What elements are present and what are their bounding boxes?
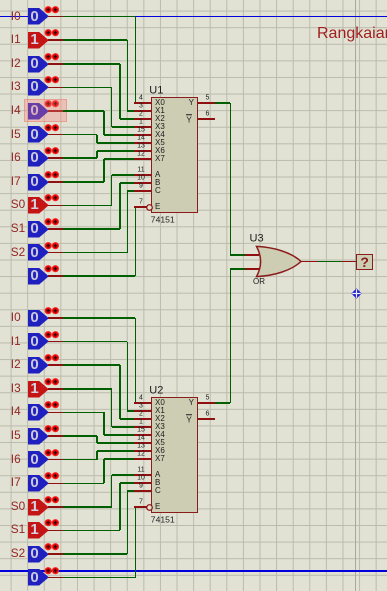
U2 pin name X1 bbox=[155, 407, 165, 415]
stub of I4 group 1 bbox=[48, 110, 64, 112]
U1 pin name X0 bbox=[155, 99, 165, 107]
U2 pin 12 (X7) stub bbox=[134, 458, 151, 460]
stub of I2 group 1 bbox=[48, 63, 64, 65]
stub of S0 group 2 bbox=[48, 506, 64, 508]
U2 pin 7 (E) stub bbox=[134, 506, 146, 508]
U2 pin number 12 bbox=[101, 451, 181, 458]
selection highlight over I4 bbox=[24, 99, 67, 122]
U1 pin number 10 bbox=[101, 175, 181, 182]
U2 pin name X0 bbox=[155, 399, 165, 407]
label I7 (group 1) bbox=[11, 176, 21, 188]
stub of I0 group 1 bbox=[48, 16, 64, 18]
stub of I3 group 1 bbox=[48, 87, 64, 89]
value digit 0 of S2 group 1 bbox=[28, 245, 41, 260]
wire I2 g2 horizontal from input bbox=[63, 364, 120, 366]
label I5 (group 2) bbox=[11, 430, 21, 442]
U2 pin number 4 bbox=[101, 395, 181, 402]
wire S2 g1 vertical bbox=[127, 191, 129, 253]
toggle buttons of I1 group 2 bbox=[44, 331, 60, 339]
wire I4 g1 horizontal to pin bbox=[104, 134, 136, 136]
wire I5 g1 vertical bbox=[96, 135, 98, 144]
74151 chip U2 body bbox=[151, 397, 198, 514]
U1 pin 7 inversion bubble bbox=[146, 204, 154, 212]
U1 pin 15 (X4) stub bbox=[134, 134, 151, 136]
wire I5 g1 horizontal to pin bbox=[97, 142, 136, 144]
value digit 0 of S2 group 2 bbox=[28, 546, 41, 561]
toggle buttons of I2 group 1 bbox=[44, 53, 60, 61]
toggle buttons of I2 group 2 bbox=[44, 354, 60, 362]
U1 pin name Y bbox=[186, 99, 194, 107]
U2 pin 3 (X1) stub bbox=[134, 410, 151, 412]
U2 pin 9 (C) stub bbox=[134, 490, 151, 492]
stub of I7 group 2 bbox=[48, 483, 64, 485]
logicstate input I2 group 1 value 0 bbox=[28, 56, 49, 73]
logicstate input S1 group 1 value 0 bbox=[28, 221, 49, 238]
toggle buttons of I6 group 1 bbox=[44, 147, 60, 155]
wire I7 g2 horizontal to pin bbox=[104, 458, 136, 460]
toggle buttons of I5 group 1 bbox=[44, 124, 60, 132]
wire I0 g1 vertical bbox=[135, 17, 137, 104]
wire S2 g1 horizontal to pin bbox=[127, 190, 135, 192]
U1 pin name X5 bbox=[155, 139, 165, 147]
toggle buttons of E input group 2 bbox=[44, 567, 60, 575]
label I2 (group 2) bbox=[11, 359, 21, 371]
wire S1 g2 vertical bbox=[119, 483, 121, 530]
designator U2 bbox=[149, 386, 163, 397]
U2 pin name X3 bbox=[155, 423, 165, 431]
label I6 (group 1) bbox=[11, 152, 21, 164]
value digit 1 of I1 group 1 bbox=[28, 32, 41, 47]
toggle buttons of I0 group 1 bbox=[44, 6, 60, 14]
wire I7 g1 vertical bbox=[103, 159, 105, 182]
wire I6 g2 horizontal to pin bbox=[97, 450, 136, 452]
wire I2 g2 vertical bbox=[119, 365, 121, 419]
U1 pin number 11 bbox=[101, 167, 181, 174]
wire S1 g1 horizontal to pin bbox=[120, 182, 136, 184]
U2 pin number 10 bbox=[101, 475, 181, 482]
U1 pin number 12 bbox=[101, 151, 181, 158]
value digit 0 of I0 group 2 bbox=[28, 310, 41, 325]
U2 pin name Y bbox=[186, 399, 194, 407]
U2 pin name X4 bbox=[155, 431, 165, 439]
U2 pin name B bbox=[155, 479, 160, 487]
wire S2 g2 horizontal from input bbox=[63, 553, 128, 555]
label I7 (group 2) bbox=[11, 477, 21, 489]
logicstate input S2 group 1 value 0 bbox=[28, 244, 49, 261]
wire I1 g1 horizontal to pin bbox=[127, 110, 135, 112]
sheet divider line bbox=[355, 0, 357, 591]
U2 pin number 13 bbox=[101, 443, 181, 450]
wire I2 g1 horizontal from input bbox=[63, 63, 120, 65]
wire S0 g1 vertical bbox=[111, 175, 113, 205]
wire S1 g2 horizontal to pin bbox=[120, 482, 136, 484]
wire S1 g1 horizontal from input bbox=[63, 228, 120, 230]
wire to U3 input B bbox=[230, 268, 245, 270]
stub of E input group 2 bbox=[48, 577, 64, 579]
logicstate input I0 group 1 value 0 bbox=[28, 8, 49, 25]
part number of U1 bbox=[151, 215, 175, 224]
logicstate input I7 group 1 value 0 bbox=[28, 174, 49, 191]
label I4 (group 1) bbox=[11, 105, 21, 117]
U2 pin name E bbox=[155, 503, 160, 511]
U2 pin name X7 bbox=[155, 455, 165, 463]
wire to U3 input A bbox=[230, 254, 245, 256]
U1 pin 5 (Y) stub bbox=[198, 102, 214, 104]
toggle buttons of E input group 1 bbox=[44, 265, 60, 273]
label I2 (group 1) bbox=[11, 58, 21, 70]
value digit 0 of I4 group 1 bbox=[28, 103, 41, 118]
label I1 (group 2) bbox=[11, 336, 21, 348]
wire E input g2 vertical bbox=[135, 507, 137, 578]
U3 output stub bbox=[301, 261, 318, 263]
U1 pin 1 (X3) stub bbox=[134, 126, 151, 128]
label S2 (group 1) bbox=[11, 247, 25, 259]
wire S2 g2 vertical bbox=[127, 491, 129, 554]
value digit 0 of I1 group 2 bbox=[28, 334, 41, 349]
wire S1 g2 horizontal from input bbox=[63, 530, 120, 532]
U1 pin 13 (X6) stub bbox=[134, 150, 151, 152]
logicstate input E input group 1 value 0 bbox=[28, 268, 49, 285]
toggle buttons of S1 group 1 bbox=[44, 218, 60, 226]
U3 input B stub bbox=[245, 268, 259, 270]
logicstate input S2 group 2 value 0 bbox=[28, 546, 49, 563]
U1 pin 2 (X2) stub bbox=[134, 118, 151, 120]
wire I7 g2 vertical bbox=[103, 459, 105, 483]
U2 pin name X5 bbox=[155, 439, 165, 447]
U2 pin number 15 bbox=[101, 427, 181, 434]
bus wire bottom bbox=[0, 570, 387, 572]
toggle buttons of S0 group 1 bbox=[44, 194, 60, 202]
U2 pin 5 (Y) stub bbox=[198, 402, 214, 404]
U1 pin number 13 bbox=[101, 143, 181, 150]
wire I3 g1 vertical bbox=[111, 87, 113, 127]
logicstate input S0 group 1 value 1 bbox=[28, 197, 49, 214]
U1 pin name B bbox=[155, 179, 160, 187]
value digit 1 of I3 group 2 bbox=[28, 381, 41, 396]
designator U1 bbox=[149, 86, 163, 97]
label I4 (group 2) bbox=[11, 406, 21, 418]
wire I3 g1 horizontal from input bbox=[63, 87, 112, 89]
U1 pin name X7 bbox=[155, 155, 165, 163]
value digit 0 of I5 group 1 bbox=[28, 127, 41, 142]
wire I7 g2 horizontal from input bbox=[63, 483, 105, 485]
U2 pin 4 (X0) stub bbox=[134, 402, 151, 404]
wire I1 g1 vertical bbox=[127, 40, 129, 111]
toggle buttons of S0 group 2 bbox=[44, 496, 60, 504]
label I0 (group 1) bbox=[11, 11, 21, 23]
wire I3 g2 horizontal to pin bbox=[112, 426, 136, 428]
stub of S1 group 1 bbox=[48, 228, 64, 230]
wire I3 g1 horizontal to pin bbox=[112, 126, 136, 128]
U2 pin name X6 bbox=[155, 447, 165, 455]
U1 pin name E bbox=[155, 203, 160, 211]
U1 pin number 1 bbox=[101, 119, 181, 126]
wire S0 g2 horizontal from input bbox=[63, 506, 112, 508]
U1 pin name Ybar bbox=[186, 114, 192, 124]
label I0 (group 2) bbox=[11, 312, 21, 324]
label S0 (group 2) bbox=[11, 501, 25, 513]
label I3 (group 2) bbox=[11, 383, 21, 395]
U3 input A stub bbox=[245, 254, 259, 256]
label S0 (group 1) bbox=[11, 199, 25, 211]
wire U2 Y horizontal bbox=[215, 402, 231, 404]
logicstate input I3 group 1 value 0 bbox=[28, 79, 49, 96]
U1 pin 3 (X1) stub bbox=[134, 110, 151, 112]
U2 pin 11 (A) stub bbox=[134, 474, 151, 476]
74151 chip U1 body bbox=[151, 97, 198, 214]
wire I3 g2 horizontal from input bbox=[63, 388, 112, 390]
wire I3 g2 vertical bbox=[111, 389, 113, 427]
toggle buttons of S2 group 1 bbox=[44, 242, 60, 250]
U2 pin name Ybar bbox=[186, 414, 192, 424]
U2 pin 14 (X5) stub bbox=[134, 442, 151, 444]
wire I6 g1 horizontal to pin bbox=[97, 150, 136, 152]
U2 pin 7 inversion bubble bbox=[146, 504, 154, 512]
toggle buttons of I0 group 2 bbox=[44, 307, 60, 315]
logicstate input I6 group 1 value 0 bbox=[28, 150, 49, 167]
wire I5 g2 vertical bbox=[96, 436, 98, 443]
wire I1 g2 horizontal from input bbox=[63, 341, 128, 343]
stub of S2 group 1 bbox=[48, 252, 64, 254]
U2 pin number 2 bbox=[101, 411, 181, 418]
value digit 0 of E input group 1 bbox=[28, 268, 41, 283]
toggle buttons of I1 group 1 bbox=[44, 29, 60, 37]
wire S0 g2 vertical bbox=[111, 475, 113, 507]
wire I2 g1 horizontal to pin bbox=[120, 118, 136, 120]
wire S2 g1 horizontal from input bbox=[63, 252, 128, 254]
wire S1 g1 vertical bbox=[119, 183, 121, 229]
label I6 (group 2) bbox=[11, 454, 21, 466]
stub of I3 group 2 bbox=[48, 388, 64, 390]
wire I7 g1 horizontal from input bbox=[63, 181, 105, 183]
stub of I6 group 2 bbox=[48, 459, 64, 461]
value digit 0 of I3 group 1 bbox=[28, 79, 41, 94]
U1 pin number 9 bbox=[101, 183, 181, 190]
wire I4 g2 horizontal from input bbox=[63, 412, 105, 414]
U2 pin number 11 bbox=[101, 467, 181, 474]
logicstate input S0 group 2 value 1 bbox=[28, 499, 49, 516]
U1 pin name X3 bbox=[155, 123, 165, 131]
U1 pin 6 (Ybar) stub bbox=[198, 118, 214, 120]
wire I7 g1 horizontal to pin bbox=[104, 158, 136, 160]
value digit 0 of I7 group 2 bbox=[28, 475, 41, 490]
wire I1 g2 horizontal to pin bbox=[127, 410, 135, 412]
wire I6 g2 vertical bbox=[96, 451, 98, 460]
stub of I1 group 1 bbox=[48, 39, 64, 41]
value digit 0 of E input group 2 bbox=[28, 570, 41, 585]
logicstate input I7 group 2 value 0 bbox=[28, 475, 49, 492]
U2 pin 2 (X2) stub bbox=[134, 418, 151, 420]
wire I6 g2 horizontal from input bbox=[63, 459, 98, 461]
logic probe ? bbox=[356, 254, 373, 270]
U2 pin number 3 bbox=[101, 403, 181, 410]
wire E input g2 horizontal from input bbox=[63, 577, 136, 579]
U2 pin number 9 bbox=[101, 483, 181, 490]
U2 pin name A bbox=[155, 471, 160, 479]
toggle buttons of I4 group 1 bbox=[44, 100, 60, 108]
U1 pin 10 (B) stub bbox=[134, 182, 151, 184]
stub of I5 group 2 bbox=[48, 435, 64, 437]
label S2 (group 2) bbox=[11, 548, 25, 560]
wire S2 g2 horizontal to pin bbox=[127, 490, 135, 492]
stub of I4 group 2 bbox=[48, 412, 64, 414]
logicstate input I3 group 2 value 1 bbox=[28, 381, 49, 398]
stub of S1 group 2 bbox=[48, 530, 64, 532]
U1 pin number 15 bbox=[101, 127, 181, 134]
stub of S2 group 2 bbox=[48, 553, 64, 555]
wire I4 g1 vertical bbox=[103, 111, 105, 135]
value digit 0 of I2 group 2 bbox=[28, 357, 41, 372]
value digit 0 of I2 group 1 bbox=[28, 56, 41, 71]
toggle buttons of S2 group 2 bbox=[44, 543, 60, 551]
logicstate input I1 group 1 value 1 bbox=[28, 32, 49, 49]
U2 pin 1 (X3) stub bbox=[134, 426, 151, 428]
wire I4 g2 vertical bbox=[103, 412, 105, 435]
logicstate input I0 group 2 value 0 bbox=[28, 310, 49, 327]
U1 pin name C bbox=[155, 187, 161, 195]
toggle buttons of I3 group 2 bbox=[44, 378, 60, 386]
stub of I6 group 1 bbox=[48, 157, 64, 159]
label I5 (group 1) bbox=[11, 129, 21, 141]
wire I0 g2 vertical bbox=[135, 318, 137, 403]
U2 pin number 7 bbox=[101, 499, 181, 506]
logicstate input I5 group 1 value 0 bbox=[28, 126, 49, 143]
label I1 (group 1) bbox=[11, 34, 21, 46]
U2 pin number 6 bbox=[168, 411, 248, 418]
value digit 0 of I4 group 2 bbox=[28, 404, 41, 419]
stub of S0 group 1 bbox=[48, 205, 64, 207]
value digit 0 of I0 group 1 bbox=[28, 9, 41, 24]
wire I5 g2 horizontal to pin bbox=[97, 442, 136, 444]
U2 pin number 1 bbox=[101, 419, 181, 426]
U1 pin number 4 bbox=[101, 95, 181, 102]
U1 pin number 3 bbox=[101, 103, 181, 110]
bus wire top bbox=[0, 16, 387, 18]
value digit 0 of I6 group 1 bbox=[28, 150, 41, 165]
U1 pin number 2 bbox=[101, 111, 181, 118]
U1 pin number 14 bbox=[101, 135, 181, 142]
wire I6 g1 horizontal from input bbox=[63, 157, 98, 159]
value digit 1 of S1 group 2 bbox=[28, 522, 41, 537]
U2 pin 6 (Ybar) stub bbox=[198, 418, 214, 420]
logicstate input S1 group 2 value 1 bbox=[28, 522, 49, 539]
value digit 0 of I6 group 2 bbox=[28, 452, 41, 467]
stub of I7 group 1 bbox=[48, 181, 64, 183]
wire E input g1 vertical bbox=[135, 207, 137, 276]
U1 pin 12 (X7) stub bbox=[134, 158, 151, 160]
U1 pin name X4 bbox=[155, 131, 165, 139]
U2 pin number 14 bbox=[101, 435, 181, 442]
wire E input g1 horizontal from input bbox=[63, 275, 136, 277]
wire U2 Y vertical up bbox=[230, 269, 232, 403]
gate type label OR bbox=[253, 278, 265, 286]
value digit 1 of S0 group 1 bbox=[28, 197, 41, 212]
wire I1 g2 vertical bbox=[127, 342, 129, 411]
wire I2 g2 horizontal to pin bbox=[120, 418, 136, 420]
wire I0 g1 horizontal from input bbox=[63, 16, 136, 18]
U2 pin 13 (X6) stub bbox=[134, 450, 151, 452]
value digit 0 of S1 group 1 bbox=[28, 221, 41, 236]
value digit 0 of I7 group 1 bbox=[28, 174, 41, 189]
toggle buttons of I5 group 2 bbox=[44, 425, 60, 433]
value digit 0 of I5 group 2 bbox=[28, 428, 41, 443]
wire I5 g1 horizontal from input bbox=[63, 134, 98, 136]
U1 pin 7 (E) stub bbox=[134, 206, 146, 208]
U1 pin name X2 bbox=[155, 115, 165, 123]
U1 pin number 6 bbox=[168, 111, 248, 118]
U2 pin 10 (B) stub bbox=[134, 482, 151, 484]
wire I1 g1 horizontal from input bbox=[63, 39, 128, 41]
label I3 (group 1) bbox=[11, 81, 21, 93]
logicstate input E input group 2 value 0 bbox=[28, 569, 49, 586]
U1 pin name X6 bbox=[155, 147, 165, 155]
toggle buttons of I3 group 1 bbox=[44, 76, 60, 84]
toggle buttons of I6 group 2 bbox=[44, 449, 60, 457]
U1 pin 9 (C) stub bbox=[134, 190, 151, 192]
probe stub bbox=[342, 261, 357, 263]
U1 pin 4 (X0) stub bbox=[134, 102, 151, 104]
U1 pin 14 (X5) stub bbox=[134, 142, 151, 144]
wire I6 g1 vertical bbox=[96, 151, 98, 158]
wire I4 g1 horizontal from input bbox=[63, 110, 105, 112]
toggle buttons of S1 group 2 bbox=[44, 519, 60, 527]
wire S0 g1 horizontal to pin bbox=[112, 174, 136, 176]
wire I0 g2 horizontal from input bbox=[63, 317, 136, 319]
U2 pin 15 (X4) stub bbox=[134, 434, 151, 436]
U1 pin name X1 bbox=[155, 107, 165, 115]
U2 pin name C bbox=[155, 487, 161, 495]
wire S0 g2 horizontal to pin bbox=[112, 474, 136, 476]
logicstate input I2 group 2 value 0 bbox=[28, 357, 49, 374]
stub of I1 group 2 bbox=[48, 341, 64, 343]
placement crosshair marker bbox=[351, 288, 362, 299]
wire U1 Y vertical down bbox=[230, 103, 232, 255]
stub of I0 group 2 bbox=[48, 317, 64, 319]
logicstate input I4 group 1 value 0 bbox=[28, 103, 49, 120]
logicstate input I5 group 2 value 0 bbox=[28, 428, 49, 445]
designator U3 bbox=[250, 233, 264, 244]
stub of E input group 1 bbox=[48, 275, 64, 277]
title text Rangkaian bbox=[317, 26, 387, 42]
value digit 1 of S0 group 2 bbox=[28, 499, 41, 514]
U2 pin name X2 bbox=[155, 415, 165, 423]
stub of I5 group 1 bbox=[48, 134, 64, 136]
wire S0 g1 horizontal from input bbox=[63, 205, 112, 207]
label S1 (group 2) bbox=[11, 524, 25, 536]
part number of U2 bbox=[151, 515, 175, 524]
U1 pin 11 (A) stub bbox=[134, 174, 151, 176]
logicstate input I4 group 2 value 0 bbox=[28, 404, 49, 421]
logicstate input I6 group 2 value 0 bbox=[28, 451, 49, 468]
toggle buttons of I7 group 2 bbox=[44, 472, 60, 480]
U1 pin number 7 bbox=[101, 199, 181, 206]
stub of I2 group 2 bbox=[48, 364, 64, 366]
wire U1 Y horizontal bbox=[215, 102, 231, 104]
probe question mark bbox=[356, 255, 373, 269]
wire I5 g2 horizontal from input bbox=[63, 435, 98, 437]
toggle buttons of I7 group 1 bbox=[44, 171, 60, 179]
wire I2 g1 vertical bbox=[119, 64, 121, 119]
U2 pin number 5 bbox=[168, 395, 248, 402]
wire U3 output bbox=[318, 261, 342, 263]
label S1 (group 1) bbox=[11, 223, 25, 235]
logicstate input I1 group 2 value 0 bbox=[28, 333, 49, 350]
U1 pin number 5 bbox=[168, 95, 248, 102]
U1 pin name A bbox=[155, 171, 160, 179]
wire I4 g2 horizontal to pin bbox=[104, 434, 136, 436]
toggle buttons of I4 group 2 bbox=[44, 401, 60, 409]
or-gate U3 bbox=[252, 243, 306, 281]
